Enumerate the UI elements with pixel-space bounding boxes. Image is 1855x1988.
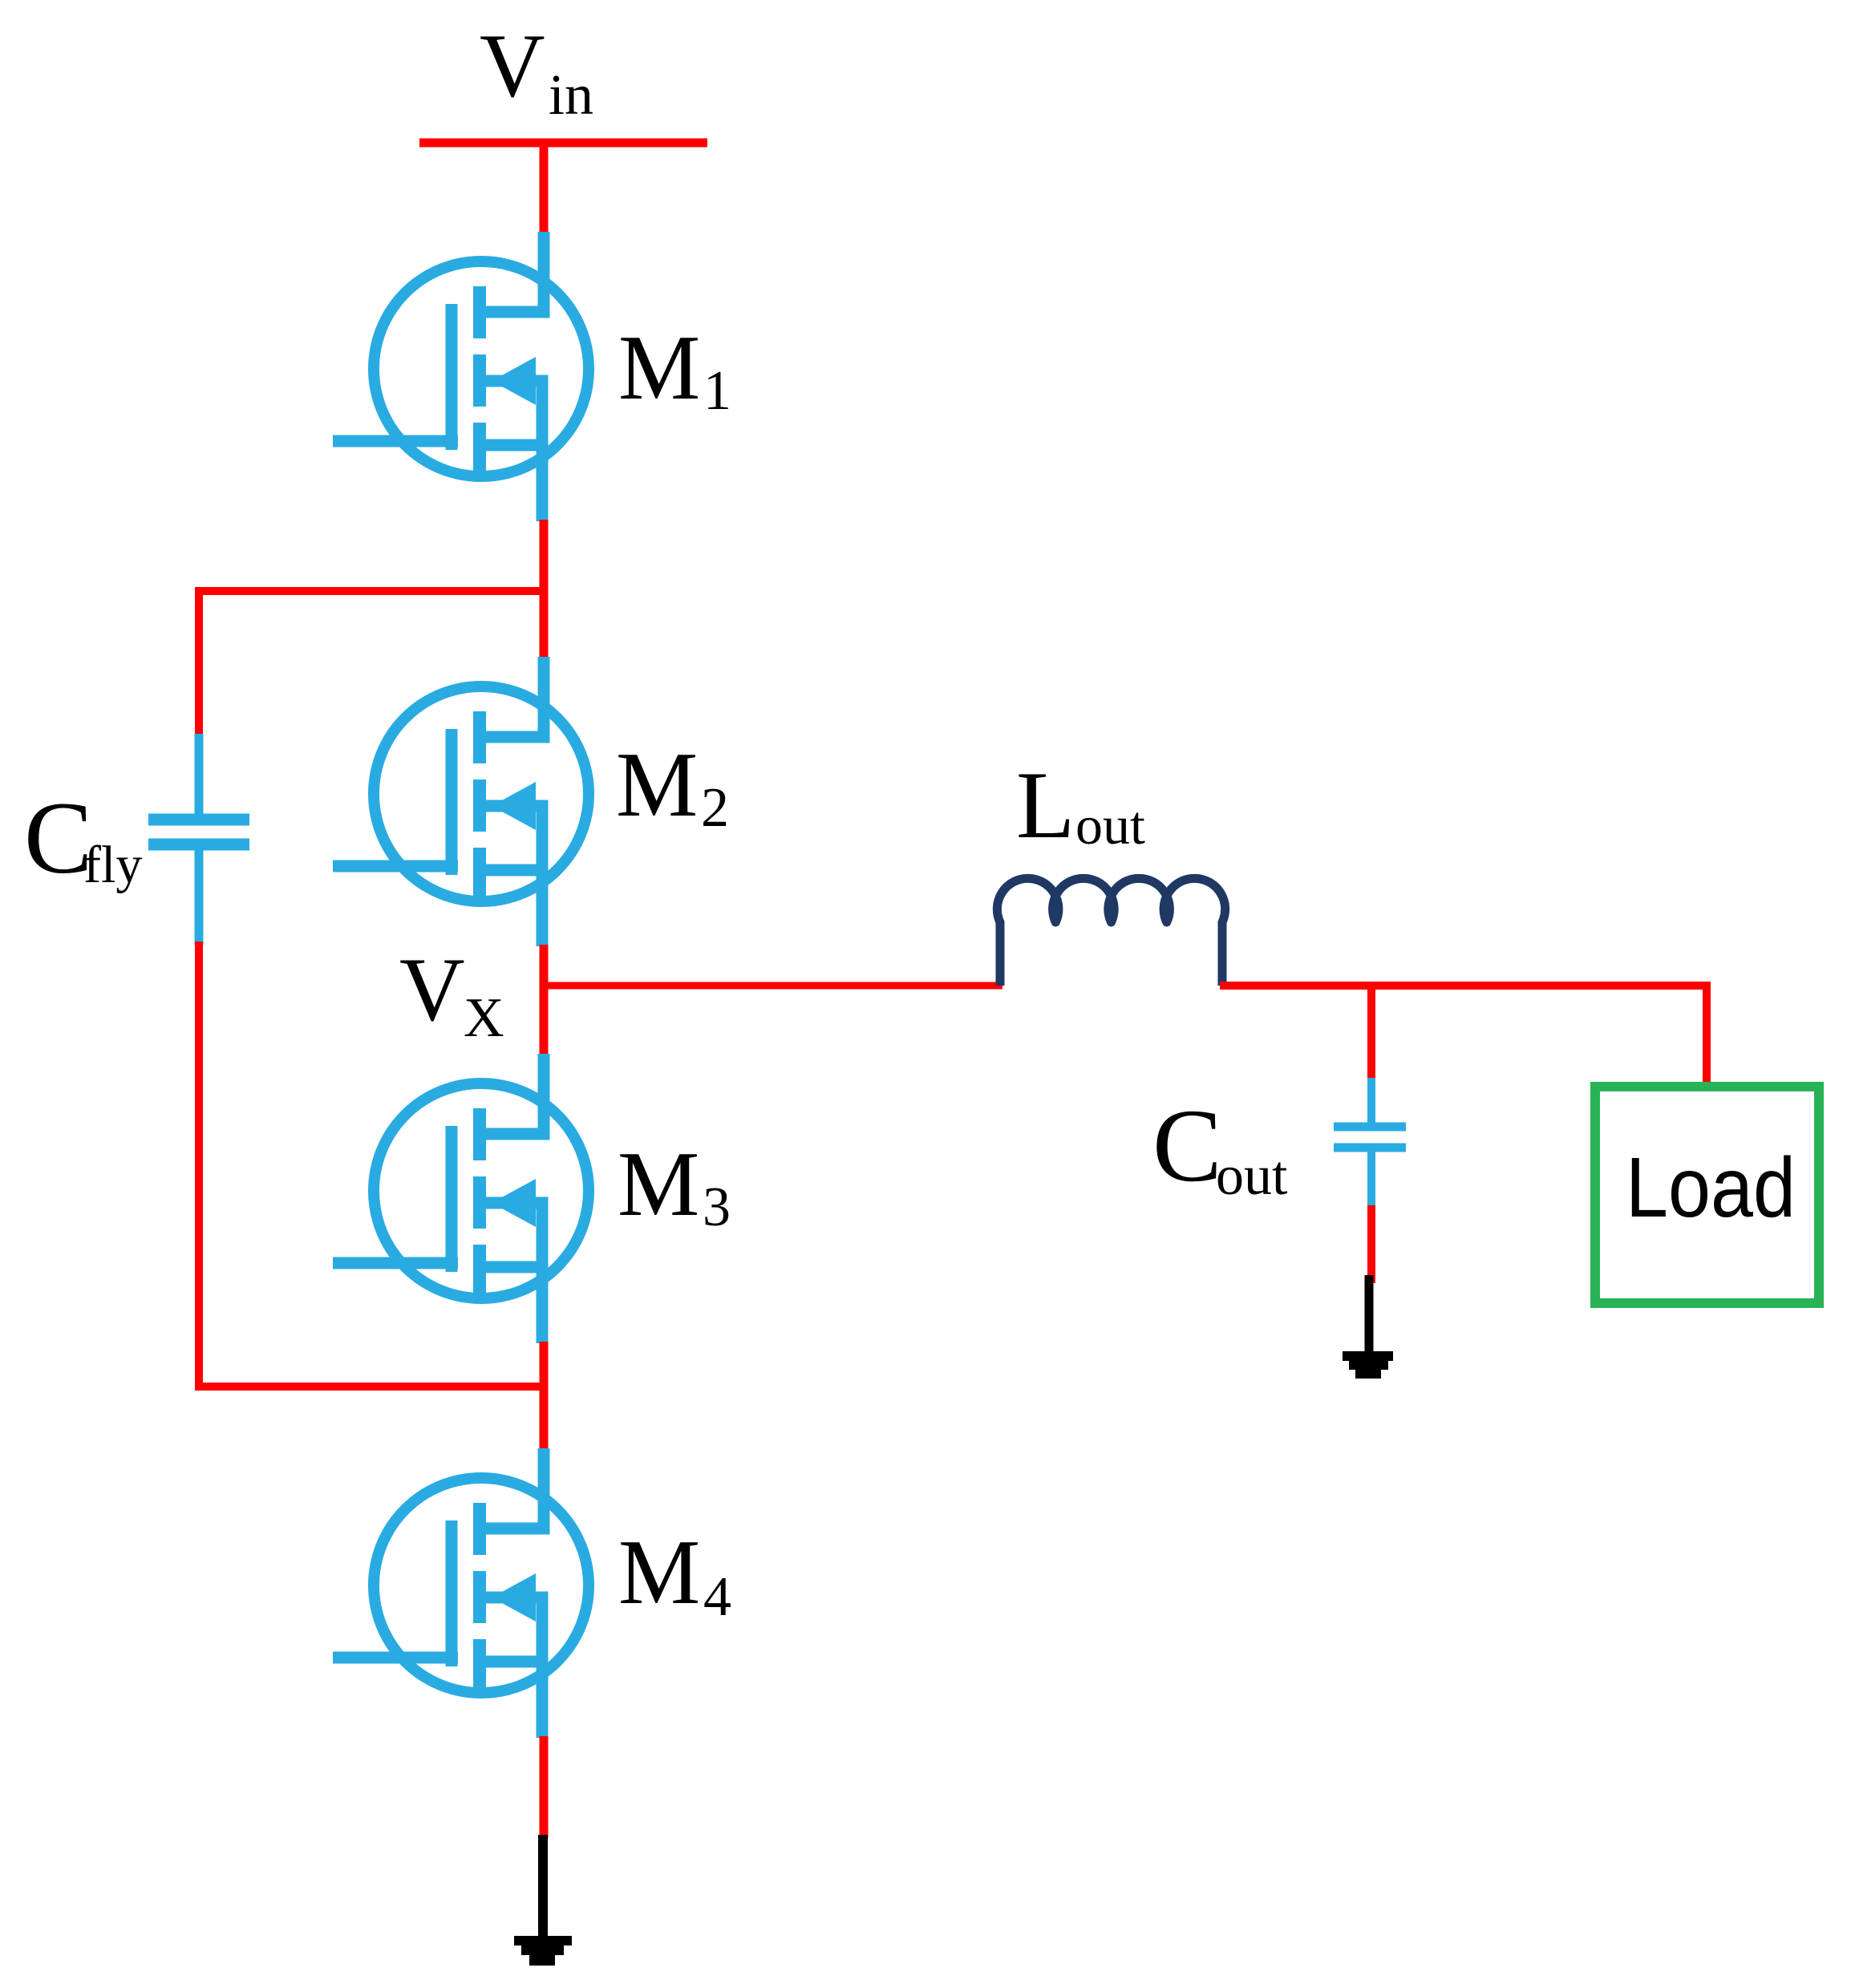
wire M1 source to M2 drain (red) [540, 520, 549, 658]
svg-text:Load: Load [1626, 1140, 1796, 1235]
wire Cout lower lead (red) [1367, 1205, 1375, 1283]
svg-text:V: V [480, 16, 545, 116]
wire Vin rail [419, 139, 707, 148]
wire Lout to Load (red) [1220, 986, 1707, 1084]
svg-text:3: 3 [703, 1176, 731, 1238]
transistor M2 [333, 657, 589, 946]
svg-text:V: V [399, 940, 465, 1040]
svg-text:X: X [464, 987, 504, 1049]
svg-text:in: in [549, 63, 593, 127]
svg-text:L: L [1016, 751, 1075, 858]
svg-text:4: 4 [703, 1566, 731, 1628]
transistor M4 [333, 1448, 589, 1738]
svg-text:M: M [618, 1133, 699, 1235]
wire M4 source down (red) [540, 1736, 549, 1838]
wire M3 source to M4 drain (red) [540, 1342, 549, 1449]
wire M4 to ground (black) [538, 1835, 548, 1937]
transistor M1 [333, 232, 589, 521]
svg-text:out: out [1075, 795, 1145, 856]
svg-text:1: 1 [703, 360, 731, 422]
load box [1595, 1087, 1819, 1303]
wire VX output node (red) [544, 982, 1002, 990]
svg-text:M: M [618, 317, 700, 419]
svg-text:out: out [1216, 1145, 1288, 1207]
svg-text:fly: fly [83, 836, 142, 894]
wire Cfly bottom branch (red) [199, 1383, 548, 1391]
wire M2 source to M3 drain (red) [540, 945, 549, 1055]
svg-text:C: C [1152, 1088, 1222, 1204]
inductor Lout [997, 878, 1225, 986]
svg-text:C: C [24, 781, 92, 895]
capacitor Cout [1334, 1078, 1406, 1209]
transistor M3 [333, 1054, 589, 1343]
wire Cfly bottom lead (red) [195, 941, 203, 1391]
wire Cout branch (red) [1367, 986, 1375, 1081]
ground under Cout [1343, 1351, 1393, 1379]
wire Cout to ground (black) [1365, 1275, 1374, 1355]
svg-text:2: 2 [701, 777, 729, 839]
wire Cfly top branch (red) [199, 591, 548, 737]
svg-text:M: M [618, 1521, 700, 1623]
capacitor Cfly [148, 734, 249, 945]
svg-text:M: M [616, 734, 698, 836]
wire Vin to M1 drain (red) [540, 143, 549, 234]
ground under M4 [514, 1936, 572, 1966]
